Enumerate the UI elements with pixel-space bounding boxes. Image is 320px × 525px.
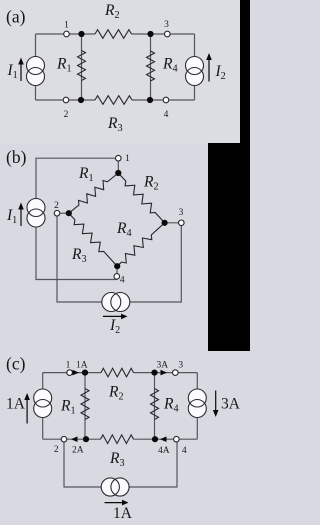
wire: R1 branch (a) <box>81 34 83 100</box>
I2 arrow (b) <box>103 314 128 320</box>
bridge left junction dot (b) <box>66 210 72 216</box>
resistor R3 zigzag (a) <box>95 96 132 105</box>
current source I1 (a) <box>27 57 45 86</box>
branch current arrow 2A (c) <box>71 436 78 442</box>
node 1 terminal (c) <box>67 370 73 376</box>
wire: node 3 stub to bridge right (b) <box>165 222 182 224</box>
wire: right branch with 3A source (c) <box>196 373 198 440</box>
branch current arrow 1A (c) <box>73 370 80 376</box>
node 3 terminal (b) <box>179 220 185 226</box>
svg-text:(a): (a) <box>6 7 26 27</box>
svg-text:4: 4 <box>164 110 169 120</box>
resistor R2 zigzag (a) <box>95 30 132 39</box>
svg-text:1: 1 <box>125 154 130 164</box>
node 1 terminal (a) <box>64 31 70 37</box>
1A source arrow up (c) <box>24 393 30 424</box>
I1 arrow (a) <box>18 58 24 82</box>
node 2 terminal (b) <box>54 210 60 216</box>
wire: R4 branch (c) <box>154 373 156 440</box>
resistor R3 zigzag (b) <box>69 213 117 266</box>
junction dot left of node 4 (a) <box>147 97 153 103</box>
current source 3A right (c) <box>188 389 206 418</box>
bridge top junction dot (b) <box>115 170 121 176</box>
resistor R1 zigzag (b) <box>69 173 119 213</box>
wire: bottom rail right of R3 (c) <box>134 438 198 440</box>
3A source arrow down (c) <box>213 391 219 418</box>
resistor R3 zigzag (c) <box>101 435 134 444</box>
wire: node 2 drop to I2 loop (b) <box>57 213 102 302</box>
svg-text:4A: 4A <box>158 446 170 456</box>
current source I2 (b) <box>102 293 130 312</box>
wire: bottom rail right of R3 (a) <box>132 99 195 101</box>
branch current arrow 3A (c) <box>161 370 168 376</box>
node 1 terminal (b) <box>116 155 122 161</box>
svg-text:(c): (c) <box>6 353 26 373</box>
wire: top rail (a) <box>36 33 96 35</box>
node 3 terminal (c) <box>173 370 179 376</box>
black margin top-right <box>240 0 250 351</box>
current source 1A bottom (c) <box>101 478 129 496</box>
current source I1 (b) <box>27 199 45 228</box>
wire: node 2 drop to bottom source (c) <box>64 439 101 487</box>
wire: I1 bottom to node 4 (b) <box>36 227 117 280</box>
node 2 terminal (a) <box>63 97 69 103</box>
wire: bottom rail (a) <box>36 99 96 101</box>
svg-text:2A: 2A <box>72 446 84 456</box>
resistor R1 zigzag (c) <box>81 389 89 420</box>
I2 arrow (a) <box>206 53 212 82</box>
wire: left branch with 1A source (c) <box>42 373 44 440</box>
svg-text:1: 1 <box>66 360 71 370</box>
junction dot left of node 3 (a) <box>147 31 153 37</box>
resistor R4 zigzag (a) <box>147 51 155 81</box>
svg-text:3A: 3A <box>221 396 241 413</box>
svg-text:2: 2 <box>64 110 69 120</box>
bridge bottom junction dot (b) <box>114 263 120 269</box>
junction dot right of node 1 (a) <box>78 31 84 37</box>
resistor R4 zigzag (c) <box>151 389 159 420</box>
wire: I1 top feed to node 1 (b) <box>36 158 118 199</box>
svg-text:1A: 1A <box>76 360 88 370</box>
node 4 terminal (a) <box>163 97 169 103</box>
branch current arrow 4A (c) <box>160 436 167 442</box>
node 2 terminal (c) <box>61 436 67 442</box>
black margin right of panel (b) <box>208 143 250 351</box>
junction dot right of node 2 (c) <box>83 436 89 442</box>
current source I2 (a) <box>186 57 204 86</box>
wire: bottom rail (c) <box>43 438 101 440</box>
svg-text:2: 2 <box>54 445 59 455</box>
resistor R2 zigzag (c) <box>101 368 134 377</box>
1A bottom source arrow right (c) <box>105 500 129 506</box>
wire: right branch with I2 (a) <box>194 34 196 100</box>
svg-text:1A: 1A <box>113 505 133 522</box>
wire: R1 branch (c) <box>84 373 86 440</box>
svg-text:4: 4 <box>182 446 187 456</box>
wire: I2 to node 3 riser (b) <box>130 223 182 302</box>
wire: left branch with I1 (a) <box>35 34 37 100</box>
svg-text:3: 3 <box>178 360 183 370</box>
bridge right junction dot (b) <box>162 220 168 226</box>
current source 1A left (c) <box>34 389 52 418</box>
resistor R1 zigzag (a) <box>78 51 86 81</box>
svg-text:3: 3 <box>179 208 184 218</box>
wire: top rail right of R2 (a) <box>132 33 195 35</box>
junction dot right of node 1 (c) <box>82 370 88 376</box>
node 4 terminal (c) <box>174 436 180 442</box>
svg-text:2: 2 <box>54 201 59 211</box>
wire: bottom source to node 4 riser (c) <box>130 439 178 487</box>
svg-text:4: 4 <box>120 276 125 286</box>
junction dot left of node 4 (c) <box>152 436 158 442</box>
svg-text:1A: 1A <box>6 396 26 413</box>
I1 arrow (b) <box>18 203 24 227</box>
svg-text:3: 3 <box>164 20 169 30</box>
wire: node 2 stub to bridge left (b) <box>57 212 69 214</box>
wire: node 1 stub to bridge top (b) <box>117 158 119 173</box>
junction dot right of node 2 (a) <box>78 97 84 103</box>
wire: R4 branch (a) <box>150 34 152 100</box>
wire: node 4 stub to bridge bottom (b) <box>116 266 118 276</box>
node 3 terminal (a) <box>165 31 171 37</box>
svg-text:(b): (b) <box>6 147 27 167</box>
svg-text:3A: 3A <box>157 360 169 370</box>
node 4 terminal (b) <box>114 274 120 280</box>
wire: top rail right of R2 (c) <box>134 372 198 374</box>
wire: top rail (c) <box>43 372 101 374</box>
junction dot left of node 3 (c) <box>151 370 157 376</box>
svg-text:1: 1 <box>64 20 69 30</box>
resistor R2 zigzag (b) <box>118 173 164 223</box>
resistor R4 zigzag (b) <box>117 223 164 266</box>
